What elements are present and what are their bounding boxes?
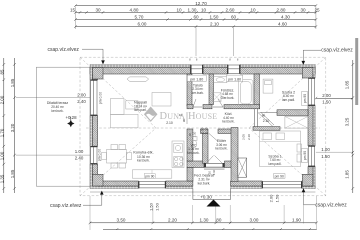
partition V6 (thin, kozl/szoba1 door wall) (254, 109, 257, 130)
svg-text:90: 90 (188, 133, 192, 137)
svg-text:2.10: 2.10 (210, 22, 219, 27)
svg-text:.80: .80 (215, 218, 222, 223)
entry door leaves (207, 156, 214, 164)
svg-text:60: 60 (193, 15, 199, 20)
entry wall stub right (225, 161, 239, 168)
svg-text:1.35: 1.35 (0, 174, 4, 183)
porch slab steps (192, 189, 194, 200)
svg-text:2.20: 2.20 (168, 218, 177, 223)
svg-text:1.50: 1.50 (210, 15, 219, 20)
porch side wall left (187, 168, 193, 182)
svg-text:ker.burk.: ker.burk. (198, 181, 211, 185)
svg-text:4.30: 4.30 (281, 15, 290, 20)
svg-text:10: 10 (201, 8, 207, 13)
svg-text:3.00: 3.00 (250, 218, 259, 223)
bottom dimension row (89, 218, 318, 225)
window left 1.00 (90, 146, 97, 164)
right wall masonry (308, 74, 313, 78)
bottom extension lines (152, 205, 154, 224)
extension lines from top dims (75, 7, 77, 30)
svg-text:1.50: 1.50 (322, 99, 331, 104)
window right upper (308, 78, 315, 106)
door szoba2 (260, 112, 278, 114)
terrace door left (90, 80, 97, 116)
svg-text:6.00: 6.00 (138, 22, 147, 27)
interior wall H1 seg2 (203, 105, 212, 109)
chimney duct with X (238, 158, 247, 177)
sofa nappali (111, 99, 125, 115)
svg-text:25: 25 (314, 8, 320, 13)
svg-text:1.85: 1.85 (10, 78, 15, 87)
svg-text:ker.burk.: ker.burk. (215, 147, 227, 151)
interior wall V1 lower (WC left) (187, 129, 193, 161)
window right lower (308, 146, 315, 167)
svg-text:5.70: 5.70 (135, 15, 144, 20)
stove 4 burners (174, 157, 183, 167)
svg-text:1.30: 1.30 (188, 8, 197, 13)
watermark duna house logo diamond (144, 107, 217, 123)
svg-text:Öler.burk.: Öler.burk. (221, 96, 235, 100)
pm 90 right upper (302, 92, 308, 106)
door eloter-kozl leaf (209, 134, 218, 142)
interior wall H1 seg1 (187, 105, 193, 109)
entry door (204, 163, 225, 167)
dimension row 3 (74, 15, 317, 21)
sink (174, 144, 183, 153)
plinth line below bottom wall (90, 191, 315, 193)
svg-text:30: 30 (95, 8, 101, 13)
level marker symbol (67, 120, 74, 127)
door nappali-kozl arc (186, 112, 188, 124)
interior wall V1 upper (nappali/tarolo) (187, 74, 192, 106)
svg-text:10: 10 (250, 8, 256, 13)
svg-text:12.70: 12.70 (195, 1, 207, 6)
svg-text:2.00: 2.00 (0, 95, 4, 104)
right setback dim 2.00/1.50 (315, 93, 354, 104)
svg-text:2.10: 2.10 (205, 127, 209, 133)
bed szoba1 (260, 131, 301, 167)
svg-text:lam.padl.: lam.padl. (269, 162, 282, 166)
svg-text:3.50: 3.50 (117, 218, 126, 223)
svg-text:ker.burk.: ker.burk. (51, 109, 63, 113)
door furdo (213, 106, 223, 108)
svg-text:lam.padl.: lam.padl. (282, 98, 295, 102)
interior wall H3 seg1 (kozl/wc-eloter) (201, 129, 209, 134)
entry sill lines (204, 167, 225, 169)
svg-text:1.70: 1.70 (0, 128, 4, 137)
svg-text:4.60: 4.60 (278, 22, 287, 27)
svg-text:1.30: 1.30 (200, 218, 209, 223)
svg-text:2.60: 2.60 (226, 8, 235, 13)
svg-text:2.00: 2.00 (269, 194, 274, 203)
svg-text:1.90: 1.90 (292, 218, 301, 223)
svg-text:pm 90: pm 90 (303, 151, 307, 160)
svg-text:+0.28: +0.28 (65, 115, 77, 120)
svg-text:pm 0.00: pm 0.00 (98, 149, 102, 161)
tv cabinet nappali (152, 93, 171, 107)
svg-text:1.50: 1.50 (154, 202, 159, 211)
wardrobe szoba1 with X (285, 116, 308, 128)
svg-text:1.00: 1.00 (321, 147, 330, 152)
right dimension line (345, 60, 354, 193)
roof hip lines (80, 57, 156, 128)
dining table konyha (107, 150, 127, 164)
window top B (227, 65, 240, 74)
svg-text:2.40: 2.40 (77, 99, 86, 104)
svg-text:csap.víz.elvez: csap.víz.elvez (321, 48, 353, 54)
svg-text:2.10: 2.10 (247, 134, 251, 140)
bottom wall masonry (98, 181, 139, 186)
svg-text:1.50: 1.50 (321, 154, 330, 159)
window bottom D (262, 181, 302, 188)
svg-text:ker.burk.: ker.burk. (187, 151, 199, 155)
terrace outline (36, 67, 90, 186)
entrance arrow (207, 200, 221, 207)
property line gray bar (355, 38, 358, 105)
svg-text:1.00: 1.00 (0, 151, 4, 160)
window bottom C (138, 181, 165, 188)
svg-text:lam.parl.: lam.parl. (134, 108, 147, 112)
corner pier top-left (93, 68, 104, 80)
svg-text:csap.víz.elvez: csap.víz.elvez (315, 203, 347, 209)
pm 90 right lower (302, 149, 308, 163)
svg-text:pm 90: pm 90 (145, 175, 154, 179)
toilet wc (191, 137, 198, 141)
svg-text:ker.burk.: ker.burk. (137, 159, 150, 163)
svg-text:+0.30: +0.30 (200, 194, 212, 199)
svg-text:1.85: 1.85 (345, 170, 350, 179)
interior wall V5 (eloter right / porch stub) (231, 128, 238, 182)
interior wall H1 seg3 (224, 105, 260, 109)
svg-text:ker.burk.: ker.burk. (222, 120, 234, 124)
washing machine (212, 93, 221, 102)
svg-text:2.10: 2.10 (263, 119, 270, 123)
kitchen counter right (172, 141, 184, 168)
right wall insulation (313, 68, 316, 78)
svg-text:2.00: 2.00 (77, 92, 86, 97)
bed szoba2 (263, 79, 273, 93)
svg-text:1.85: 1.85 (10, 169, 15, 178)
svg-text:DUNA HOUSE: DUNA HOUSE (160, 111, 218, 122)
left opening extension lines (16, 97, 90, 99)
pm 90 bottom C (144, 174, 155, 179)
svg-text:2.00: 2.00 (322, 93, 331, 98)
svg-text:pm 90: pm 90 (303, 94, 307, 103)
interior wall V3 (furdo/szoba2) (254, 74, 260, 109)
washbasin furdo (214, 77, 227, 83)
door tarolo (193, 106, 202, 108)
svg-text:1.50: 1.50 (149, 202, 154, 211)
interior wall H3 seg2 (218, 129, 236, 134)
svg-text:pm 1.80: pm 1.80 (190, 77, 203, 81)
wall szoba1 top segment (253, 127, 280, 131)
roof overhang dashed outline (80, 57, 326, 196)
lintel capsule nappali (127, 77, 149, 81)
pm 90 bottom D (274, 174, 286, 179)
tarolo label (187, 75, 206, 81)
svg-text:csap.víz.elvez: csap.víz.elvez (48, 47, 80, 53)
entry wall stub left (187, 161, 204, 168)
svg-text:pm 1.80: pm 1.80 (228, 77, 241, 81)
roof ridge dashed line (86, 127, 320, 129)
bottom dimension row 2 (cut off) (103, 228, 317, 231)
top wall masonry (90, 68, 191, 75)
svg-text:30: 30 (300, 8, 306, 13)
bottom wall insulation (90, 186, 138, 189)
svg-text:2.05: 2.05 (241, 134, 245, 140)
left wall insulation (90, 68, 93, 80)
svg-text:2.80: 2.80 (277, 8, 286, 13)
interior wall V2 (tarolo/furdo) (209, 74, 214, 105)
svg-text:pm 90: pm 90 (275, 175, 284, 179)
left wall masonry (93, 74, 98, 80)
door szoba1/kozl leaf (258, 113, 273, 127)
left dimension line A (0, 58, 5, 193)
svg-text:1.50: 1.50 (274, 194, 279, 203)
svg-text:15: 15 (70, 8, 76, 13)
furdo label (227, 75, 243, 81)
dimension row 4 (74, 22, 317, 28)
corner pier bottom-right (302, 174, 313, 186)
svg-text:60: 60 (231, 15, 237, 20)
svg-text:1.00: 1.00 (75, 149, 84, 154)
corner pier bottom-left (93, 174, 104, 186)
bathtub (239, 80, 254, 106)
interior wall H2 (szoba2/szoba1) (277, 110, 308, 116)
left dimension line B (10, 58, 16, 193)
corner pier top-right (302, 68, 313, 79)
kitchen counter bottom (132, 170, 171, 178)
dimension row 2 (70, 8, 320, 14)
svg-text:pm 0.00: pm 0.00 (99, 92, 103, 104)
svg-text:csap.víz.elvez: csap.víz.elvez (50, 203, 82, 209)
svg-text:ker.burk.: ker.burk. (192, 91, 204, 95)
svg-text:1.85: 1.85 (345, 80, 350, 89)
svg-text:85: 85 (0, 69, 4, 74)
window top A (191, 65, 204, 74)
interior wall V4 (wc/eloter) (203, 134, 209, 164)
svg-text:4.80: 4.80 (130, 8, 139, 13)
dimension row 1 total 12.70 (74, 1, 317, 7)
svg-text:3.20: 3.20 (10, 123, 15, 132)
svg-text:3.25: 3.25 (345, 117, 350, 126)
top wall insulation (90, 64, 191, 67)
svg-text:2.40: 2.40 (75, 155, 84, 160)
svg-text:90: 90 (262, 113, 266, 117)
svg-text:10: 10 (176, 8, 182, 13)
